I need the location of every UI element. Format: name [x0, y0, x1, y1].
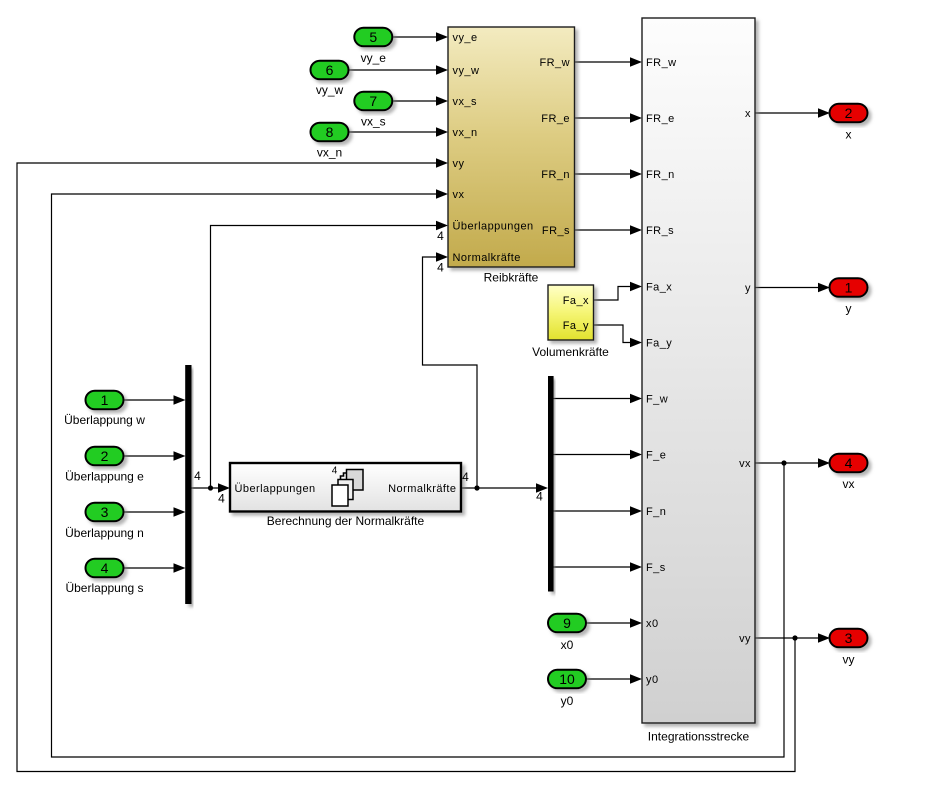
junction dot vx [781, 460, 786, 465]
wire F_w [554, 394, 643, 404]
svg-text:Überlappungen: Überlappungen [235, 483, 316, 495]
wire vx output to outport4 [755, 458, 831, 468]
inport 6 [311, 61, 349, 80]
wire vy_e (inport5 to Reibkraefte) [392, 32, 448, 42]
wire FR_n [575, 169, 643, 179]
wire FR_s [575, 225, 643, 235]
wire Ueberlappung w to mux [124, 395, 186, 405]
junction dot mux output [208, 485, 213, 490]
for-each icon (stacked pages) [332, 466, 363, 507]
svg-text:x: x [745, 108, 751, 120]
svg-text:Fa_x: Fa_x [646, 282, 672, 294]
svg-text:4: 4 [845, 455, 853, 471]
inport 4 [86, 559, 124, 578]
inport 3 [86, 503, 124, 522]
svg-text:FR_e: FR_e [541, 113, 570, 125]
wire vx_n (inport8 to Reibkraefte) [349, 127, 449, 137]
svg-text:4: 4 [462, 470, 469, 484]
inport 5 [354, 28, 392, 47]
svg-text:4: 4 [437, 261, 444, 275]
svg-text:y0: y0 [561, 694, 574, 708]
subsystem block Integrationsstrecke [642, 18, 755, 723]
svg-text:vy_e: vy_e [361, 51, 387, 65]
svg-text:vx: vx [843, 477, 855, 491]
wire y output to outport1 [755, 283, 831, 293]
svg-text:8: 8 [326, 124, 334, 140]
svg-text:FR_n: FR_n [646, 169, 675, 181]
inport 8 [311, 123, 349, 142]
svg-text:FR_w: FR_w [646, 57, 677, 69]
outport 2 [830, 104, 868, 123]
svg-text:4: 4 [194, 469, 201, 483]
wire vy feedback loop [17, 158, 795, 771]
wire F_n [554, 506, 643, 516]
svg-text:Überlappung e: Überlappung e [65, 470, 144, 484]
svg-text:x0: x0 [561, 638, 574, 652]
svg-text:1: 1 [845, 280, 853, 296]
svg-text:FR_n: FR_n [541, 169, 570, 181]
svg-text:y: y [745, 283, 751, 295]
svg-text:Überlappungen: Überlappungen [453, 221, 534, 233]
wire Fa_x [594, 282, 643, 300]
svg-text:7: 7 [369, 93, 377, 109]
svg-text:Integrationsstrecke: Integrationsstrecke [648, 730, 750, 744]
svg-text:2: 2 [845, 105, 853, 121]
svg-text:3: 3 [101, 504, 109, 520]
wire Normalkraefte vector to Reibkraefte [423, 252, 478, 488]
wire Fa_y [594, 325, 643, 347]
svg-text:2: 2 [101, 448, 109, 464]
subsystem block Berechnung der Normalkraefte [230, 463, 461, 512]
wire Ueberlappungen vector to Reibkraefte [211, 221, 449, 488]
svg-text:F_s: F_s [646, 562, 666, 574]
wire mux output to Berechnung [192, 483, 231, 493]
wire y0 [586, 674, 642, 684]
wire vy_w (inport6 to Reibkraefte) [349, 65, 449, 75]
svg-text:Normalkräfte: Normalkräfte [453, 252, 521, 264]
wire Ueberlappung s to mux [124, 563, 186, 573]
svg-text:Berechnung der Normalkräfte: Berechnung der Normalkräfte [267, 514, 425, 528]
wire x0 [586, 618, 642, 628]
svg-text:Normalkräfte: Normalkräfte [388, 483, 456, 495]
svg-text:4: 4 [332, 466, 338, 477]
svg-text:5: 5 [369, 29, 377, 45]
svg-text:4: 4 [101, 560, 109, 576]
svg-text:y: y [846, 302, 852, 316]
svg-text:FR_s: FR_s [542, 225, 570, 237]
subsystem block Volumenkraefte [548, 285, 594, 340]
svg-text:x: x [846, 128, 852, 142]
wire Ueberlappung n to mux [124, 507, 186, 517]
svg-text:Volumenkräfte: Volumenkräfte [532, 345, 609, 359]
svg-text:vx_s: vx_s [361, 115, 386, 129]
svg-text:vy: vy [453, 158, 465, 170]
svg-text:Überlappung s: Überlappung s [65, 581, 143, 595]
svg-text:F_n: F_n [646, 506, 666, 518]
svg-text:vy_w: vy_w [316, 83, 344, 97]
svg-text:vx_s: vx_s [453, 96, 477, 108]
svg-text:vy_e: vy_e [453, 32, 478, 44]
outport 3 [830, 629, 868, 648]
svg-text:9: 9 [563, 615, 571, 631]
svg-text:FR_w: FR_w [539, 57, 570, 69]
svg-text:vx_n: vx_n [453, 127, 478, 139]
svg-text:Reibkräfte: Reibkräfte [484, 271, 539, 285]
svg-text:4: 4 [536, 490, 543, 504]
svg-text:Fa_y: Fa_y [646, 338, 672, 350]
wire x output to outport2 [755, 108, 831, 118]
svg-text:3: 3 [845, 630, 853, 646]
svg-text:10: 10 [559, 671, 575, 687]
demux bar [548, 376, 554, 592]
junction dot vy [792, 635, 797, 640]
svg-text:4: 4 [218, 492, 225, 506]
svg-text:vx: vx [739, 458, 751, 470]
wire Normalkraefte to demux [461, 483, 548, 493]
svg-text:vy_w: vy_w [453, 65, 480, 77]
wire Ueberlappung e to mux [124, 451, 186, 461]
inport 7 [354, 92, 392, 111]
svg-text:F_w: F_w [646, 394, 668, 406]
svg-text:vy: vy [843, 653, 855, 667]
wire FR_w [575, 57, 643, 67]
inport 2 [86, 447, 124, 466]
svg-text:x0: x0 [646, 618, 659, 630]
svg-text:Überlappung w: Überlappung w [64, 413, 145, 427]
svg-text:vx_n: vx_n [317, 146, 342, 160]
svg-text:1: 1 [101, 392, 109, 408]
subsystem block Reibkraefte [448, 27, 575, 267]
mux bar [185, 365, 191, 604]
svg-text:4: 4 [437, 229, 444, 243]
wire F_e [554, 450, 643, 460]
junction dot Normalkraefte [474, 485, 479, 490]
svg-text:F_e: F_e [646, 450, 666, 462]
outport 4 [830, 454, 868, 473]
wire vx feedback loop [52, 189, 785, 757]
svg-text:y0: y0 [646, 674, 659, 686]
wire vy output to outport3 [755, 633, 831, 643]
svg-text:FR_s: FR_s [646, 225, 674, 237]
outport 1 [830, 278, 868, 297]
wire F_s [554, 562, 643, 572]
inport 1 [86, 391, 124, 410]
svg-text:6: 6 [326, 62, 334, 78]
inport 9 [548, 614, 586, 633]
inport 10 [548, 670, 586, 689]
svg-text:vy: vy [739, 633, 751, 645]
svg-text:Fa_y: Fa_y [563, 320, 589, 332]
wire vx_s (inport7 to Reibkraefte) [392, 96, 448, 106]
wire FR_e [575, 113, 643, 123]
svg-text:Fa_x: Fa_x [563, 295, 589, 307]
svg-text:vx: vx [453, 189, 465, 201]
svg-text:Überlappung n: Überlappung n [65, 526, 144, 540]
svg-text:FR_e: FR_e [646, 113, 675, 125]
